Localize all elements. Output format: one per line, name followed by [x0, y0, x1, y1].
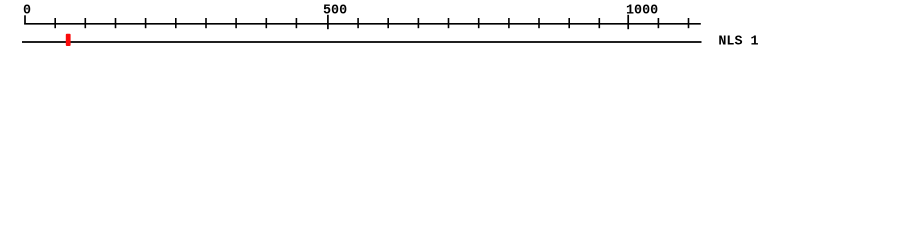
ruler axis line	[24, 23, 701, 25]
major tick 1000	[627, 15, 629, 29]
protein line	[22, 41, 702, 43]
minor ticks	[55, 18, 688, 28]
major tick 500	[327, 15, 329, 29]
major tick 0	[24, 15, 26, 24]
svg-text:1000: 1000	[626, 4, 658, 19]
svg-text:0: 0	[23, 4, 31, 19]
svg-text:500: 500	[323, 4, 347, 19]
NLS 1 domain marker	[66, 34, 71, 46]
svg-text:NLS 1: NLS 1	[718, 35, 758, 50]
